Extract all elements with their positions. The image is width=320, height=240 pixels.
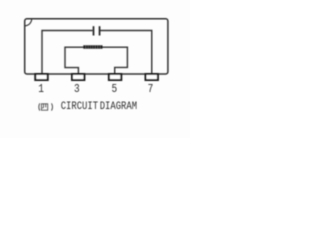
svg-text:3: 3 [74, 83, 80, 96]
svg-text:7: 7 [148, 83, 154, 96]
svg-text:5: 5 [112, 83, 118, 96]
svg-text:1: 1 [38, 83, 44, 96]
svg-text:DIAGRAM: DIAGRAM [100, 101, 137, 113]
svg-text:CIRCUIT: CIRCUIT [61, 101, 98, 113]
